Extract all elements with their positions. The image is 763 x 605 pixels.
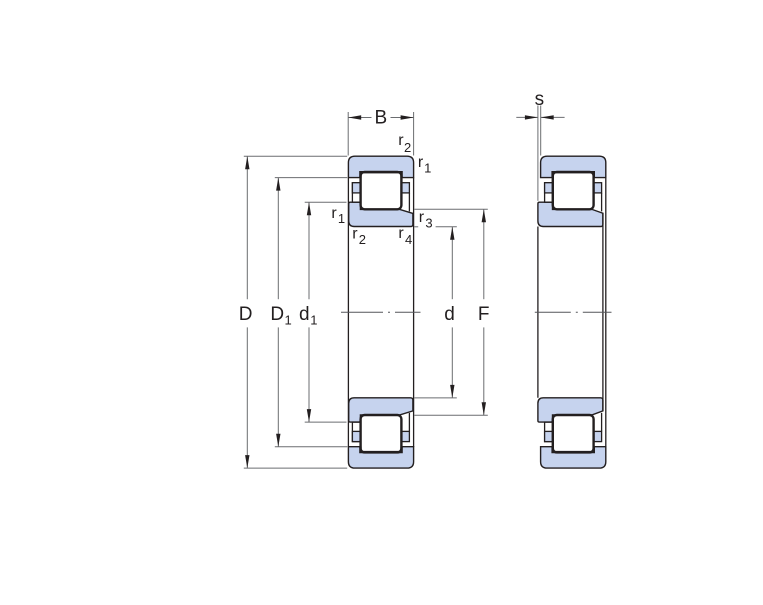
cage bottom-right blue part right figure (594, 431, 602, 441)
inner ring bottom section right figure (538, 398, 603, 422)
dimension B extension lines (347, 112, 349, 156)
cage top-right blue part right figure (594, 183, 602, 193)
inner ring right face line right figure (602, 213, 604, 411)
dimension F line and arrows (483, 209, 485, 299)
svg-text:1: 1 (424, 161, 431, 176)
cage top-left blue part right figure (545, 183, 553, 193)
svg-text:2: 2 (359, 232, 366, 247)
left face line of left figure (347, 178, 349, 447)
outer ring top raceway groove right figure (553, 172, 594, 177)
dimension d extension lines (414, 226, 418, 228)
outer ring bottom raceway groove (thick line) (360, 447, 401, 452)
svg-text:D: D (239, 304, 253, 325)
inner ring top section (349, 202, 413, 226)
cage bottom-left white part right figure (545, 422, 553, 442)
svg-text:3: 3 (425, 216, 432, 231)
cage top-right bar line right figure (601, 193, 603, 212)
svg-text:1: 1 (310, 312, 317, 327)
dimension D line and arrows (246, 156, 248, 299)
centerline right figure (535, 311, 612, 313)
dimension d1 extension lines (305, 201, 347, 203)
roller top (left figure) (361, 172, 402, 209)
cage bottom-left blue part right figure (545, 431, 553, 441)
svg-text:1: 1 (285, 312, 292, 327)
cage bottom-left blue part (352, 431, 360, 441)
outer ring top raceway groove (thick line) (360, 172, 401, 177)
svg-text:r: r (398, 225, 404, 242)
dimension D extension lines (244, 155, 347, 157)
dimension s extension lines (537, 106, 539, 201)
cage bottom-right bar line (408, 413, 410, 432)
cage bottom-right bar line right figure (601, 413, 603, 432)
cage top-left blue part (352, 183, 360, 193)
svg-text:r: r (331, 205, 337, 222)
roller bottom (right figure) (553, 415, 594, 452)
svg-text:1: 1 (338, 211, 345, 226)
outer ring bottom raceway groove right figure (553, 447, 594, 452)
dimension d line and arrows (451, 227, 453, 299)
roller top (right figure) (553, 172, 594, 209)
cage top-left white part right figure (545, 183, 553, 203)
dimension B line and arrows (348, 117, 371, 119)
svg-text:r: r (418, 154, 424, 171)
dimension D1 line and arrows (277, 178, 279, 300)
centerline left figure (341, 311, 421, 313)
dimension F extension lines (414, 208, 488, 210)
svg-text:4: 4 (405, 232, 412, 247)
cage bottom-left white part (352, 422, 360, 442)
svg-text:s: s (535, 89, 545, 110)
svg-text:D: D (270, 304, 284, 325)
cage top-left white part (352, 183, 360, 203)
dimension d1 line and arrows (308, 202, 310, 299)
outer ring bottom section (right figure) (541, 447, 606, 468)
svg-text:2: 2 (404, 140, 411, 155)
svg-text:B: B (375, 107, 388, 128)
svg-text:r: r (419, 209, 425, 226)
roller bottom (left figure) (361, 415, 402, 452)
cage bottom-right blue part (402, 431, 410, 441)
dimension s arrows (516, 116, 538, 118)
inner ring left face line right figure (537, 227, 539, 398)
outer ring top section (left figure) (348, 156, 413, 177)
svg-text:F: F (478, 304, 490, 325)
outer ring bottom section (left figure) (348, 447, 413, 468)
inner ring top section right figure (538, 202, 603, 226)
dimension D1 extension lines (275, 177, 347, 179)
svg-text:d: d (444, 304, 455, 325)
right face line of left figure (413, 178, 415, 447)
inner ring bottom section (349, 398, 413, 422)
outer ring right face line right figure (605, 178, 607, 447)
cage top-right bar line (408, 193, 410, 212)
outer ring top section (right figure) (541, 156, 606, 177)
svg-text:d: d (299, 304, 310, 325)
cage top-right blue part (402, 183, 410, 193)
svg-text:r: r (352, 226, 358, 243)
